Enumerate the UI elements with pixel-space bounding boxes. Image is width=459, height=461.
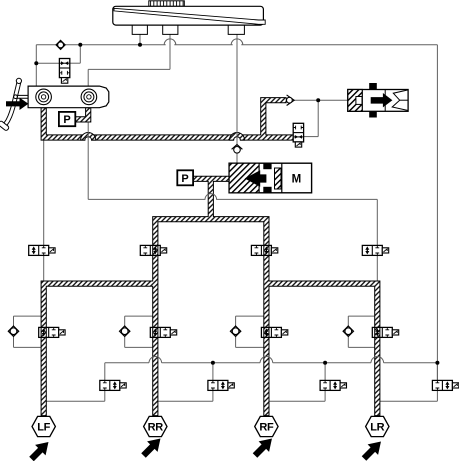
wire junction-to-valve V1 left [36, 62, 59, 64]
svg-text:M: M [292, 174, 302, 186]
wheel arrow RF [250, 433, 277, 460]
metering valve V1 [59, 59, 69, 78]
pump and motor unit [229, 163, 312, 193]
brake line MC primary (hatched) part B [92, 135, 234, 140]
wheel LR [366, 416, 389, 436]
wire LF dump valve top [104, 363, 106, 381]
wire LR bypass upper stub [347, 316, 349, 326]
wire RF dump valve bottom [324, 390, 326, 401]
relief valve V2 [293, 123, 303, 142]
node return RF [323, 361, 327, 365]
wire RR dump valve top [212, 363, 214, 381]
wire LR bypass bottom tap [348, 346, 377, 348]
reservoir fluid level indicator [114, 8, 265, 24]
wire hop bottom return over RR line [149, 357, 162, 363]
wire MC secondary out under P elbow [87, 108, 89, 123]
wire mid return left segment [88, 198, 205, 200]
wire LR supply drop [376, 199, 378, 245]
pedal force arrow [6, 98, 28, 110]
wire RR bypass upper stub [124, 316, 126, 326]
bypass check valve RR [120, 326, 130, 336]
MC secondary piston [81, 89, 97, 105]
hatched line hop over MC secondary wire [81, 133, 96, 141]
master cylinder body [28, 86, 109, 108]
hatched line hop over pump suction wire [229, 133, 244, 141]
wire relief valve to node [304, 136, 318, 138]
node accumulator line [316, 98, 320, 102]
wire LF bypass bottom tap [14, 346, 44, 348]
reservoir port 2 [163, 25, 178, 34]
wire LF bypass upper stub [13, 316, 15, 326]
wire bottom return segment 1 [105, 362, 149, 364]
dump valve C4 (LR) [432, 380, 458, 390]
brake line P-switch elbow (hatched) [75, 108, 91, 122]
wire LR bypass top tap [348, 315, 377, 317]
svg-text:P: P [63, 114, 70, 126]
V2 spring [295, 142, 301, 147]
wire node down to relief valve [317, 100, 319, 136]
dump valve C1 (LF) [100, 380, 126, 390]
node top-1 [78, 43, 82, 47]
pushrod [16, 95, 28, 98]
wire RR bypass bottom tap [125, 346, 156, 348]
wire RR dump link to wheel line [155, 400, 213, 402]
inlet valve A4 (LR circuit) [362, 245, 388, 255]
brake pedal arm [5, 82, 19, 124]
wire bottom return segment 3 [273, 362, 371, 364]
node top-2 (port1) [138, 43, 142, 47]
brake line MC primary (hatched) part A [41, 108, 85, 140]
outlet valve B4 (LR) [372, 327, 398, 337]
reservoir port 1 [132, 25, 147, 34]
wire hop top line over port3 [231, 39, 243, 45]
wire right return vertical [436, 45, 438, 381]
brake pedal pad [0, 120, 10, 131]
inlet valve A2 (RR circuit) [140, 245, 166, 255]
accumulator [348, 83, 408, 118]
wire bottom return segment 2 [162, 362, 261, 364]
wire hop top line over port2 [164, 39, 176, 45]
wire LF dump valve bottom [104, 390, 106, 401]
outlet valve B1 (LF) [39, 327, 65, 337]
wheel RR [144, 416, 167, 436]
wire RR bypass lower stub [124, 336, 126, 347]
wire reservoir port3 to pump suction [236, 34, 238, 163]
wire reservoir port2 drop [169, 34, 171, 69]
wheel RF [255, 416, 278, 436]
reservoir cap [149, 1, 185, 7]
wire RF dump valve top [324, 363, 326, 381]
wire LR dump valve bottom [436, 390, 438, 401]
wire hop mid return over pump drop [205, 194, 217, 200]
node return RR [211, 361, 215, 365]
inlet valve A1 (LF circuit) [29, 245, 55, 255]
MC primary piston [36, 89, 52, 105]
dump valve C3 (RF) [320, 380, 346, 390]
wire port2 elbow horizontal [88, 68, 170, 70]
pedal clevis pin [14, 95, 18, 99]
wire RF bypass lower stub [235, 336, 237, 347]
check valve CV2 pump suction [232, 145, 243, 154]
node return LR [435, 361, 439, 365]
wire MC secondary down (crosses hatched hop) [87, 122, 89, 199]
wheel arrow LR [359, 436, 386, 461]
wire RR dump valve bottom [212, 390, 214, 401]
wire LR supply lower [376, 255, 378, 283]
svg-text:LR: LR [370, 422, 384, 434]
V1 spring [61, 78, 67, 84]
wire top distribution line right [241, 44, 437, 46]
dump valve C2 (RR) [208, 380, 234, 390]
wire top distribution line middle [174, 44, 232, 46]
wire LF bypass lower stub [13, 336, 15, 347]
wire hop bottom return over RF line [260, 357, 273, 363]
wire RF dump link to wheel line [266, 400, 325, 402]
svg-text:LF: LF [37, 422, 50, 434]
wire LF dump link to wheel line [44, 400, 105, 402]
brake pedal pivot [16, 78, 21, 83]
wire RF bypass upper stub [235, 316, 237, 326]
wire reservoir-to-MC primary supply [35, 45, 37, 86]
wire LR bypass lower stub [347, 336, 349, 347]
wire LR dump link to wheel line [377, 400, 437, 402]
bypass check valve RF [230, 326, 240, 336]
wire RF bypass bottom tap [236, 346, 267, 348]
pressure switch P1 [59, 112, 75, 126]
wire mid return right segment [216, 198, 377, 200]
wire LF supply upper [43, 140, 45, 245]
wheel arrow RR [138, 433, 165, 460]
inlet valve A3 (RF circuit) [251, 245, 277, 255]
wheel arrow LF [26, 437, 53, 461]
svg-text:RR: RR [148, 422, 164, 434]
reservoir port 3 [228, 25, 244, 34]
wire top distribution line left [36, 44, 165, 46]
node MC supply [34, 61, 38, 65]
wire bottom return segment 4 [384, 362, 438, 364]
wire hop bottom return over LR line [371, 357, 384, 363]
outlet valve B2 (RR) [150, 327, 176, 337]
check valve CV-A on distribution line [56, 40, 65, 49]
svg-text:P: P [181, 173, 188, 185]
wire RR bypass top tap [125, 315, 156, 317]
brake line pump manifold and wheel columns (hatched) [41, 176, 380, 415]
brake line MC primary (hatched) part C with branch to check valve [240, 98, 293, 141]
wire LF supply lower [43, 255, 45, 283]
wire LF bypass top tap [14, 315, 44, 317]
wire RF bypass top tap [236, 315, 267, 317]
wire LR dump valve top [436, 363, 438, 381]
svg-text:RF: RF [259, 422, 274, 434]
wire reservoir port1 drop [139, 34, 141, 44]
wire check-valve to accumulator [294, 99, 348, 101]
bypass check valve LF [8, 326, 18, 336]
outlet valve B3 (RF) [261, 327, 287, 337]
wire top line to V1 [79, 45, 81, 64]
wheel LF [32, 416, 55, 436]
bypass check valve LR [343, 326, 353, 336]
wire port2 into MC top [87, 69, 89, 86]
pressure switch P2 [177, 170, 193, 185]
wire valve V1 right [70, 62, 81, 64]
reservoir body [113, 6, 264, 25]
check valve CV1 outlet [287, 95, 295, 106]
